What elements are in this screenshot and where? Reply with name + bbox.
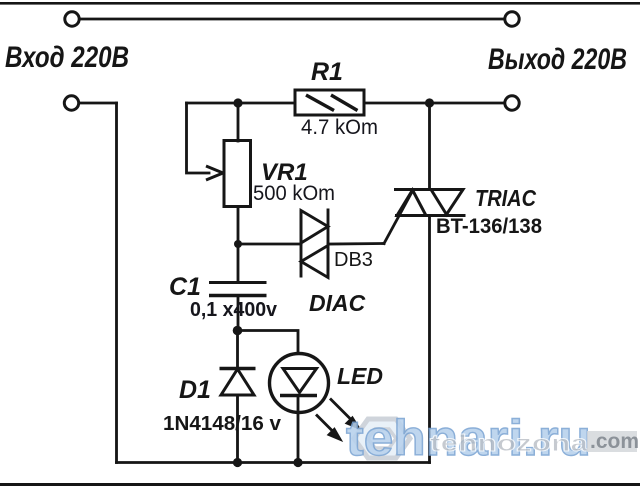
svg-text:D1: D1 bbox=[179, 376, 211, 404]
node dot at TRIAC top bbox=[425, 98, 434, 107]
node dot at VR1 top bbox=[233, 98, 242, 107]
wire DIAC right lead bbox=[328, 242, 384, 245]
wire R1 right to output node bbox=[364, 102, 504, 105]
svg-text:DIAC: DIAC bbox=[309, 290, 366, 316]
potentiometer VR1 bbox=[206, 141, 251, 207]
node dot B below C1 bbox=[233, 326, 243, 336]
svg-text:DB3: DB3 bbox=[334, 249, 373, 271]
wire TRIAC anode vertical top bbox=[428, 103, 431, 190]
wire top bus bbox=[80, 18, 504, 21]
svg-text:4.7 kOm: 4.7 kOm bbox=[301, 116, 378, 139]
svg-text:BT-136/138: BT-136/138 bbox=[436, 215, 542, 238]
wire C1 bottom to node B bbox=[237, 296, 240, 331]
triac BT-136 bbox=[394, 190, 466, 216]
node dot bottom rail D1 bbox=[233, 458, 242, 467]
diode D1 bbox=[220, 369, 256, 396]
terminal input top bbox=[65, 12, 79, 26]
wire LED cathode to bottom rail bbox=[297, 396, 300, 463]
wire node A to DIAC left bbox=[238, 243, 301, 246]
svg-text:R1: R1 bbox=[311, 58, 343, 86]
wire node into VR1 top bbox=[237, 103, 240, 141]
top border rule bbox=[0, 2, 640, 5]
LED bbox=[270, 354, 329, 413]
watermark nut logo bbox=[354, 419, 410, 458]
diac DB3 bbox=[301, 209, 328, 278]
terminal input bottom bbox=[64, 96, 78, 110]
svg-text:LED: LED bbox=[337, 363, 383, 389]
wire gate diagonal to TRIAC bbox=[384, 190, 413, 244]
node dot bottom rail LED bbox=[293, 458, 302, 467]
terminal output bottom bbox=[505, 96, 519, 110]
bottom border rule bbox=[0, 483, 640, 486]
capacitor C1 bbox=[209, 283, 267, 296]
LED light arrow 1 bbox=[330, 399, 361, 430]
LED light arrow 2 bbox=[316, 415, 342, 442]
svg-text:500 kOm: 500 kOm bbox=[253, 182, 335, 205]
svg-text:Вход 220В: Вход 220В bbox=[5, 41, 129, 74]
node dot at DIAC tap bbox=[234, 240, 242, 248]
wire node to R1 left bbox=[187, 102, 296, 105]
svg-text:tehnozona: tehnozona bbox=[430, 430, 588, 456]
wire node B down to D1 bbox=[236, 331, 239, 369]
svg-text:TRIAC: TRIAC bbox=[475, 185, 536, 211]
wire from input terminal to left rail bbox=[80, 102, 117, 105]
svg-text:C1: C1 bbox=[169, 273, 201, 301]
svg-text:.com: .com bbox=[590, 430, 639, 453]
wire TRIAC vertical bottom bbox=[428, 216, 431, 463]
svg-text:0,1 x400v: 0,1 x400v bbox=[190, 299, 278, 321]
wire wiper branch bbox=[187, 103, 210, 173]
wire D1 anode to bottom rail bbox=[236, 395, 239, 463]
resistor R1 bbox=[295, 90, 364, 115]
wire bottom rail bbox=[117, 461, 430, 464]
wire VR1 bottom to C1 bbox=[237, 207, 240, 282]
wire node B to LED branch bbox=[238, 331, 298, 354]
watermark .com box bbox=[587, 431, 637, 452]
svg-text:Выход 220В: Выход 220В bbox=[488, 43, 627, 76]
terminal output top bbox=[505, 12, 519, 26]
wire left rail bbox=[115, 103, 118, 463]
svg-text:1N4148/16 v: 1N4148/16 v bbox=[163, 413, 282, 435]
